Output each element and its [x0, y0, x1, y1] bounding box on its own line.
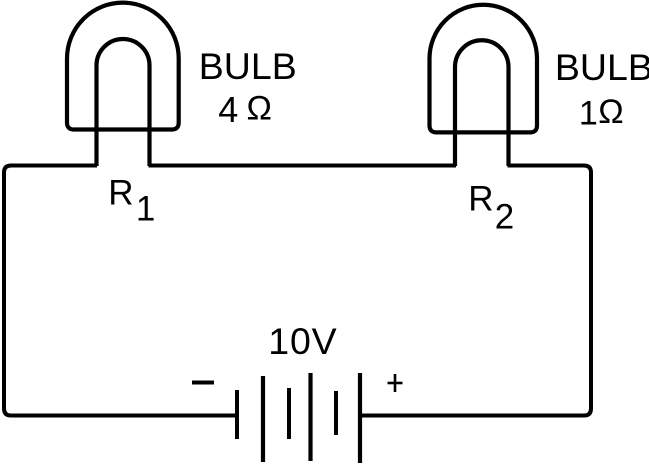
battery: left terminal plate (negative side): [235, 390, 239, 439]
wire: top middle segment between bulbs: [149, 164, 457, 168]
minus sign at battery: [192, 381, 214, 385]
bulb R2 filament (inner arch with legs to wire): [455, 40, 509, 166]
bulb R2 outer envelope: [430, 5, 538, 133]
svg-text:R: R: [468, 180, 493, 219]
svg-text:1: 1: [579, 95, 598, 133]
svg-text:Ω: Ω: [247, 90, 272, 128]
plus sign at battery: [388, 382, 403, 385]
svg-text:Ω: Ω: [598, 93, 623, 131]
battery: long plate 1: [261, 376, 265, 462]
wire: top-right segment + right edge + bottom-right segment (to battery plus plate): [360, 166, 591, 416]
svg-text:BULB: BULB: [199, 45, 297, 87]
battery: short plate 2: [334, 391, 338, 435]
battery: long plate 2: [308, 373, 312, 461]
svg-text:1: 1: [136, 190, 155, 229]
bulb R1 outer envelope: [67, 3, 179, 130]
battery: right terminal long plate (positive side): [358, 373, 362, 463]
battery: short plate 1: [287, 388, 291, 439]
svg-text:2: 2: [495, 197, 514, 236]
wire: top-left segment + left edge + bottom-left segment (to battery minus plate): [4, 166, 237, 416]
svg-text:R: R: [108, 174, 133, 213]
bulb R1 filament (inner arch with legs to wire): [97, 39, 150, 166]
svg-text:BULB: BULB: [555, 46, 649, 88]
svg-text:10V: 10V: [268, 320, 337, 362]
svg-text:4: 4: [218, 89, 238, 130]
